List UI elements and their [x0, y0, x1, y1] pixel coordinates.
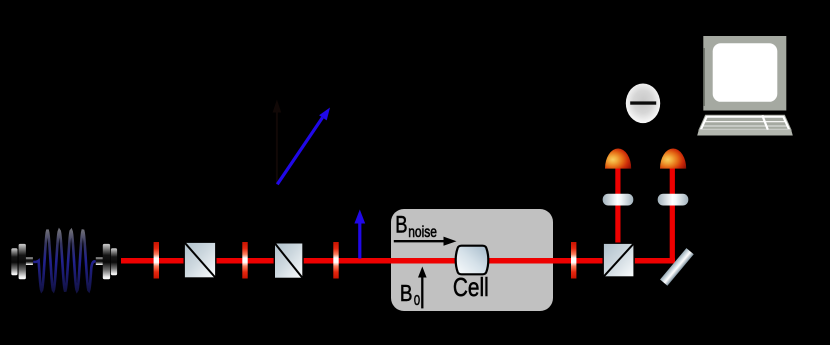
svg-text:noise: noise: [408, 224, 437, 241]
svg-text:Cell: Cell: [453, 272, 489, 302]
svg-text:B: B: [400, 280, 413, 306]
svg-text:0: 0: [414, 292, 420, 309]
svg-text:B: B: [395, 212, 407, 239]
